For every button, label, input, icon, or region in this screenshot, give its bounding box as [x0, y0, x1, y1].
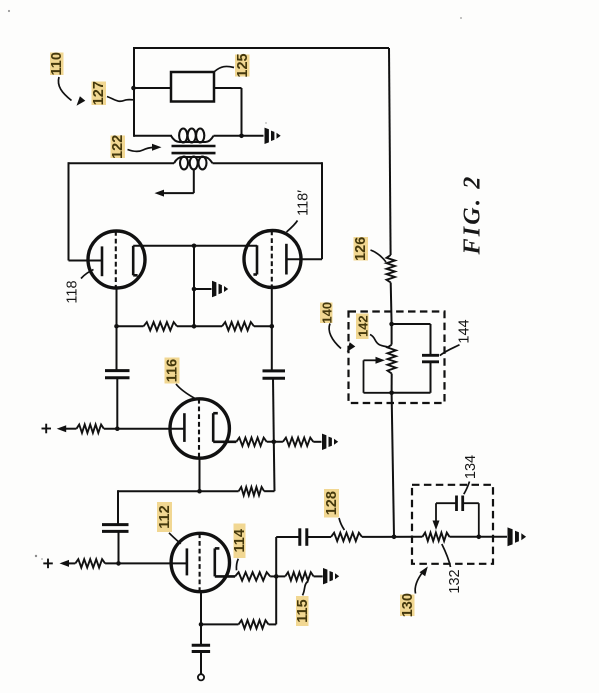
wire R114 to R115 — [270, 575, 285, 577]
node primary-ground junction — [239, 134, 244, 139]
label 144 — [457, 319, 473, 343]
arrow input 2 — [60, 560, 76, 567]
resistor R126 — [387, 255, 395, 283]
wire cap144 lower — [392, 362, 431, 393]
resistor feedback row — [239, 487, 265, 495]
node junction to damping box — [131, 86, 136, 91]
wire input 1 to grid — [104, 428, 185, 430]
wire cap 2 to input row 2 — [118, 531, 120, 563]
label 140 — [319, 302, 334, 324]
label 118 leader — [81, 270, 94, 279]
tube V118' plate lead — [286, 258, 322, 260]
label 130 — [400, 593, 416, 617]
svg-text:125: 125 — [235, 53, 251, 77]
transformer T122 core — [172, 146, 216, 153]
terminal open circle — [198, 674, 204, 680]
svg-text:114: 114 — [232, 529, 248, 552]
label 128 leader — [339, 518, 344, 530]
tube V118 cathode bracket — [133, 246, 137, 275]
node ground stub junction — [192, 287, 197, 292]
wire cap to R128 — [307, 536, 331, 538]
wire secondary right lead — [213, 162, 323, 259]
wire grid bus between tubes — [133, 245, 257, 247]
resistor right cathode — [222, 322, 254, 330]
tube V118' bottom lead — [271, 287, 273, 326]
tube V118' plate bar — [285, 244, 288, 275]
label 110 — [49, 52, 65, 75]
resistor R125 box — [171, 72, 214, 102]
node input 2 junction — [116, 561, 121, 566]
label 127 — [91, 81, 107, 105]
wire ground stub — [194, 288, 212, 290]
node output junction — [477, 535, 482, 540]
wire secondary left lead — [69, 162, 175, 260]
pot R142 wiper arrow — [364, 357, 392, 393]
svg-text:144: 144 — [457, 319, 473, 343]
svg-text:118′: 118′ — [296, 190, 312, 216]
svg-text:116: 116 — [165, 359, 181, 382]
wire R132 to ground — [450, 536, 508, 538]
ground output — [508, 527, 527, 546]
dashed box 130 — [412, 485, 493, 564]
label 127 leader — [107, 97, 133, 102]
capacitor coupling C-118' — [263, 371, 286, 378]
resistor grid input 1 — [77, 425, 104, 433]
label 132 leader — [442, 544, 451, 567]
wire cap to terminal — [200, 652, 202, 675]
wire input row bottom left — [276, 537, 300, 576]
node rail bottom junction — [392, 535, 397, 540]
resistor grid input 2 — [75, 559, 105, 567]
label 125 leader — [215, 66, 235, 71]
svg-text:118: 118 — [65, 280, 81, 303]
wire to ground row 1 — [267, 441, 283, 443]
wire ground lead row 2 — [314, 575, 323, 577]
wire main rail lower — [392, 393, 394, 537]
node box140 bottom junction — [389, 391, 394, 396]
node input 1 junction — [115, 426, 120, 431]
label 114 leader — [236, 559, 238, 571]
tube V116 bottom lead — [199, 458, 201, 491]
wire cathode row — [117, 325, 272, 327]
label 112 — [157, 502, 173, 532]
wire left column lower — [116, 378, 118, 429]
label 140 leader — [329, 324, 355, 353]
capacitor C134 — [457, 496, 463, 512]
label 122 — [110, 135, 126, 159]
title FIG. 2 — [460, 175, 486, 256]
label 134 leader — [464, 482, 470, 495]
label 142 — [355, 314, 370, 340]
label 112 leader — [169, 533, 181, 544]
svg-text:134: 134 — [463, 455, 479, 479]
svg-text:140: 140 — [319, 302, 334, 324]
svg-text:112: 112 — [157, 505, 173, 528]
svg-text:115: 115 — [295, 599, 311, 622]
label 126 leader — [371, 250, 387, 262]
label 115 — [295, 596, 311, 626]
label 132 — [447, 569, 463, 593]
label 114 — [232, 524, 248, 559]
node feedback row junction — [197, 489, 202, 494]
pot R132 wiper arrow — [433, 503, 440, 530]
node plate 112 junction — [274, 574, 279, 579]
wire rail into R142 — [391, 324, 393, 345]
label 118' — [296, 190, 312, 216]
dashed box 140 — [349, 312, 445, 404]
wire from box 125 to primary — [214, 88, 242, 137]
resistor R114 — [235, 572, 270, 580]
tube V116 cathode bracket — [213, 413, 218, 442]
wire R128 to rail — [362, 536, 422, 538]
svg-text:132: 132 — [447, 569, 463, 593]
label 144 leader — [440, 345, 460, 356]
resistor R128 — [331, 533, 362, 541]
wire wiper to cap134 — [436, 502, 457, 504]
svg-text:128: 128 — [324, 491, 340, 515]
capacitor coupling C-112 — [102, 525, 129, 532]
label 134 — [463, 455, 479, 479]
ground center stub — [212, 281, 228, 297]
potentiometer R142 — [388, 345, 396, 374]
paper speck — [8, 10, 462, 560]
svg-text:127: 127 — [91, 81, 107, 105]
svg-text:130: 130 — [400, 593, 416, 617]
arrow input 1 — [57, 425, 77, 432]
transformer T122 primary winding — [171, 129, 214, 143]
svg-text:142: 142 — [355, 315, 370, 337]
wire left column upper — [116, 326, 118, 370]
resistor cathode 112 — [239, 620, 269, 628]
node plate 116 junction — [272, 440, 277, 445]
wire grid bus down — [193, 246, 195, 326]
label 125 — [235, 53, 251, 77]
wire right column lower — [272, 378, 275, 442]
wire box140 inner top — [392, 324, 431, 355]
label 118' leader — [287, 221, 298, 233]
tube V118 plate bar — [101, 246, 104, 276]
tube V116 grid bar — [183, 413, 186, 442]
label 122 leader — [128, 144, 162, 152]
tube V118' envelope — [244, 231, 301, 288]
wire feedback row — [118, 442, 275, 491]
svg-text:FIG. 2: FIG. 2 — [460, 175, 486, 256]
capacitor output — [192, 645, 210, 651]
tube V116 plate lead — [213, 440, 236, 443]
wire input 2 to grid — [105, 562, 187, 564]
ground primary side — [265, 128, 281, 144]
label 142 leader — [370, 335, 388, 347]
transformer T122 secondary winding — [174, 157, 213, 170]
node cathode 112 junction — [199, 622, 204, 627]
tube V112 bottom lead — [200, 592, 202, 625]
tube V112 plate lead — [215, 575, 235, 578]
node cathode row mid — [192, 324, 197, 329]
wire R142 to bottom — [391, 374, 393, 393]
svg-text:126: 126 — [353, 237, 369, 261]
resistor plate 116 B — [283, 438, 313, 446]
wire right column upper — [271, 326, 273, 370]
label 110 leader — [58, 77, 85, 106]
label 116 — [165, 358, 181, 384]
tube V116 envelope — [170, 399, 229, 458]
tube V112 envelope — [171, 533, 229, 591]
wire ground lead row 1 — [313, 441, 321, 443]
tube V118' grid bracket — [253, 245, 257, 274]
label 130 leader — [415, 567, 428, 594]
potentiometer R132 — [422, 533, 449, 541]
tube V118 bottom lead — [116, 288, 118, 327]
capacitor coupling C-116 — [105, 371, 130, 378]
resistor plate 116 A — [236, 438, 266, 446]
label 118 — [65, 280, 81, 303]
wire top rail B+ — [134, 47, 389, 49]
transformer T122 primary lead right — [214, 135, 264, 137]
ground row 2 — [323, 568, 339, 584]
svg-text:122: 122 — [110, 135, 126, 159]
node cathode row right — [270, 324, 275, 329]
wire cathode 112 row — [201, 576, 276, 624]
node grid bus junction — [192, 244, 197, 249]
node cathode row left — [114, 324, 119, 329]
label 116 leader — [176, 384, 195, 399]
tube V112 grid bar — [186, 548, 189, 575]
capacitor C144 — [422, 355, 439, 362]
wire main rail mid — [390, 283, 393, 325]
plus terminal input 1 — [42, 424, 52, 434]
node box140 top junction — [389, 322, 394, 327]
plus terminal input 2 — [43, 559, 53, 569]
capacitor C-128 — [300, 528, 307, 546]
wire left rail down to transformer — [133, 47, 135, 137]
wire center tap with arrow — [155, 169, 194, 197]
wire to resistor box 125 — [134, 87, 172, 89]
tube V118 envelope — [88, 231, 145, 288]
resistor R115 — [285, 572, 313, 580]
wire cap134 to output — [463, 503, 479, 537]
ground row 1 — [322, 434, 338, 450]
label 126 — [353, 237, 369, 261]
resistor left cathode — [144, 322, 178, 330]
label 115 leader — [303, 582, 308, 596]
transformer T122 primary lead left — [134, 135, 172, 137]
svg-text:110: 110 — [49, 52, 65, 75]
wire to output cap — [200, 624, 202, 645]
wire left column to cap 2 — [117, 490, 119, 524]
tube V118 plate lead — [69, 260, 103, 262]
label 128 — [324, 489, 340, 518]
tube V112 cathode bracket — [215, 548, 220, 576]
wire main rail upper — [389, 48, 391, 255]
